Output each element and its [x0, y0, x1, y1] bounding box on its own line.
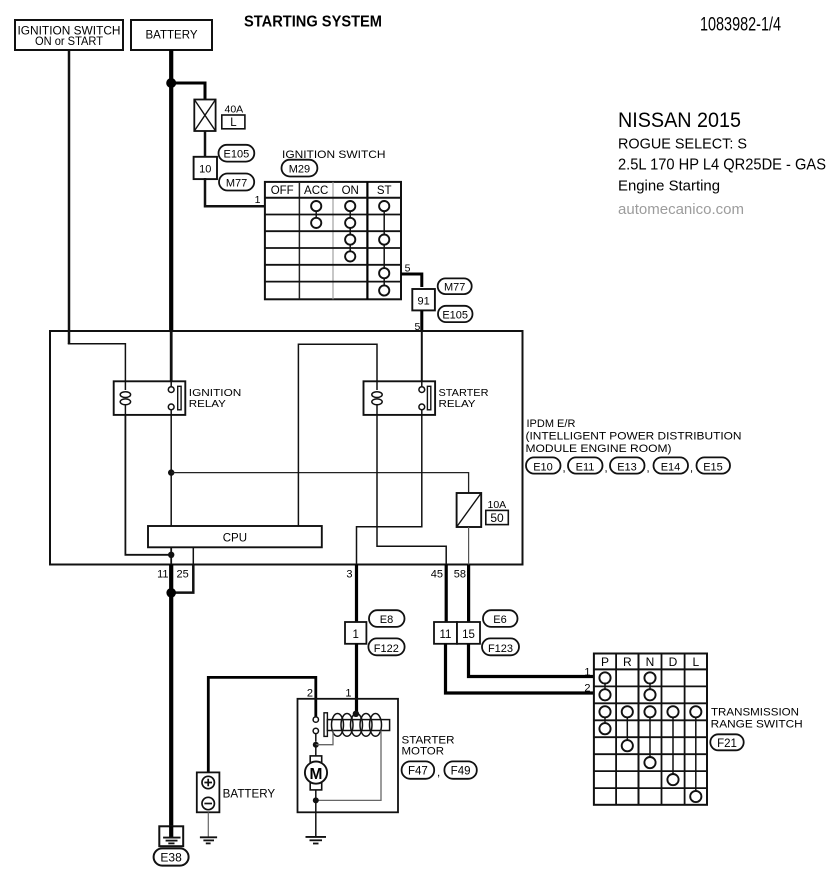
wire CPU to pin 11	[170, 547, 172, 564]
junction dot motor ground node	[313, 797, 319, 803]
label IPDM E/R	[526, 418, 742, 455]
wire contact node to motor	[315, 745, 317, 756]
wire contact node to coil left	[316, 731, 333, 745]
connector oval E105 right	[438, 306, 473, 322]
label IGNITION SWITCH	[282, 149, 386, 161]
svg-text:E11: E11	[576, 461, 595, 473]
connector box 91	[412, 289, 435, 310]
ground starter motor	[306, 837, 327, 844]
svg-text:Engine Starting: Engine Starting	[618, 179, 720, 195]
svg-text:BATTERY: BATTERY	[146, 30, 198, 42]
junction dot starter pin 1	[353, 711, 359, 717]
wire connector 91 to IPDM pin 5	[420, 310, 423, 381]
svg-text:2.5L 170 HP L4 QR25DE - GAS: 2.5L 170 HP L4 QR25DE - GAS	[618, 157, 826, 174]
connector oval F21	[710, 734, 743, 750]
svg-text:TRANSMISSION: TRANSMISSION	[711, 707, 799, 719]
connector oval F123	[482, 638, 519, 655]
svg-text:F122: F122	[374, 643, 399, 655]
svg-text:,: ,	[437, 767, 440, 779]
svg-text:L: L	[230, 117, 237, 129]
starter motor box	[298, 699, 399, 813]
TRS contact lines	[605, 678, 696, 797]
wire fusible link to connector 10	[204, 131, 207, 157]
wire battery plus to starter pin 2	[208, 677, 315, 772]
svg-text:1: 1	[255, 194, 261, 206]
svg-text:F47: F47	[408, 766, 428, 778]
ignition switch table headers	[271, 185, 392, 197]
title STARTING SYSTEM	[244, 14, 382, 31]
svg-text:2: 2	[307, 688, 313, 700]
wire CPU to pin 25	[192, 547, 194, 564]
transmission range switch table grid	[594, 654, 707, 805]
connector oval M77 right	[438, 278, 472, 294]
wire motor to starter ground	[315, 790, 317, 837]
wire connector 15 to TRS row 1	[469, 644, 594, 677]
wire pin 3 to connector 1	[355, 565, 358, 623]
box IGNITION SWITCH ON or START	[15, 20, 123, 50]
svg-text:ON: ON	[342, 185, 359, 197]
junction dot starter contact node	[313, 742, 319, 748]
svg-text:E105: E105	[442, 309, 468, 321]
connector oval M77	[219, 174, 254, 191]
svg-text:E13: E13	[617, 461, 637, 473]
wire battery main feed	[169, 50, 173, 381]
connector box 1	[345, 622, 366, 644]
svg-text:M: M	[310, 766, 323, 783]
fusible link 40A	[194, 100, 245, 132]
starter solenoid coil	[327, 714, 389, 737]
connector oval E6	[483, 610, 518, 627]
svg-text:F123: F123	[488, 643, 513, 655]
svg-text:15: 15	[462, 629, 475, 641]
svg-text:ACC: ACC	[304, 185, 328, 197]
wire branch to fusible link	[171, 83, 205, 100]
svg-text:45: 45	[431, 569, 443, 581]
svg-text:MODULE ENGINE ROOM): MODULE ENGINE ROOM)	[526, 443, 672, 455]
svg-text:40A: 40A	[225, 104, 244, 116]
svg-text:ROGUE SELECT: S: ROGUE SELECT: S	[618, 137, 747, 153]
header text block	[618, 109, 826, 218]
wire starter relay coil to pin 45	[377, 415, 446, 565]
wire ignition switch pin 5 to connector 91	[401, 274, 422, 287]
svg-text:ST: ST	[377, 185, 392, 197]
wire battery minus to ground	[207, 812, 209, 837]
starter solenoid contacts	[313, 717, 318, 742]
starter relay U2	[364, 381, 489, 415]
svg-text:E15: E15	[703, 461, 723, 473]
ignition switch contact circles	[311, 201, 389, 296]
pin label 1 starter	[345, 688, 351, 700]
doc number 1083982-1/4	[700, 15, 781, 36]
svg-text:L: L	[692, 655, 699, 669]
junction dot pin 11-25	[166, 588, 176, 598]
svg-text:F49: F49	[451, 766, 471, 778]
connector oval F49	[444, 761, 476, 778]
svg-text:IGNITION: IGNITION	[189, 387, 242, 399]
svg-text:ON or START: ON or START	[35, 36, 103, 48]
svg-text:E8: E8	[380, 614, 393, 626]
svg-text:(INTELLIGENT POWER DISTRIBUTIO: (INTELLIGENT POWER DISTRIBUTION	[526, 431, 742, 443]
junction dot fuse feed	[168, 469, 174, 475]
connector oval M29	[282, 160, 318, 177]
TRS table headers P R N D L	[601, 655, 699, 669]
svg-text:RELAY: RELAY	[439, 398, 476, 410]
svg-text:IPDM E/R: IPDM E/R	[527, 418, 576, 430]
pin label 1 ignition switch	[255, 194, 261, 206]
ignition switch table grid	[265, 182, 401, 299]
starter plunger bar	[324, 713, 327, 737]
connector oval E38	[154, 848, 189, 865]
motor M	[305, 756, 327, 790]
svg-text:2: 2	[584, 682, 590, 694]
svg-text:91: 91	[417, 295, 429, 307]
svg-text:10: 10	[199, 163, 211, 175]
svg-text:E6: E6	[493, 614, 506, 626]
pin label 5 upper	[405, 263, 411, 275]
svg-text:10A: 10A	[488, 499, 507, 511]
svg-text:11: 11	[157, 569, 168, 581]
svg-text:3: 3	[346, 569, 352, 581]
svg-text:,: ,	[563, 463, 566, 475]
wire connector 10 to ignition switch pin 1	[205, 178, 265, 206]
svg-text:M77: M77	[444, 282, 465, 294]
svg-text:MOTOR: MOTOR	[402, 745, 445, 757]
svg-text:1: 1	[352, 629, 358, 641]
svg-text:5: 5	[405, 263, 411, 275]
connector ovals E10 E11 E13 E14 E15	[526, 457, 730, 474]
svg-text:,: ,	[605, 463, 608, 475]
svg-text:R: R	[623, 655, 632, 669]
svg-text:N: N	[646, 655, 655, 669]
pin label 5 lower	[414, 321, 420, 333]
battery B1	[197, 772, 276, 812]
junction dot battery branch	[166, 78, 176, 88]
svg-text:25: 25	[177, 569, 189, 581]
svg-text:,: ,	[690, 463, 693, 475]
wire ignition relay contact to CPU	[170, 415, 172, 526]
wire node to fuse 10A	[171, 473, 468, 493]
svg-text:OFF: OFF	[271, 185, 294, 197]
connector oval F122	[368, 638, 404, 655]
TRS contact circles	[599, 672, 701, 802]
svg-text:1: 1	[584, 667, 590, 679]
svg-text:1083982-1/4: 1083982-1/4	[700, 15, 781, 36]
wire ignition relay coil to node	[125, 415, 171, 555]
svg-text:STARTING SYSTEM: STARTING SYSTEM	[244, 14, 382, 31]
junction dot coil node	[168, 552, 174, 558]
svg-text:automecanico.com: automecanico.com	[618, 201, 744, 218]
svg-text:BATTERY: BATTERY	[223, 789, 276, 801]
wire starter relay contact to pin 3	[357, 415, 422, 565]
svg-text:50: 50	[490, 511, 504, 525]
svg-text:E38: E38	[160, 851, 182, 865]
wire connector 11 to TRS row 2	[446, 644, 594, 693]
svg-text:RELAY: RELAY	[189, 398, 226, 410]
connector oval E8	[369, 610, 405, 627]
svg-text:D: D	[669, 655, 678, 669]
ground battery	[200, 837, 217, 843]
svg-text:NISSAN 2015: NISSAN 2015	[618, 109, 741, 132]
wire ignition switch feed	[68, 50, 126, 381]
box BATTERY top	[131, 20, 212, 50]
fuse 10A 50	[457, 493, 509, 527]
svg-text:M29: M29	[289, 163, 310, 175]
wire coil right to motor node	[316, 731, 381, 801]
wire connector 1 to starter motor pin 1	[355, 644, 358, 714]
svg-text:E105: E105	[224, 148, 250, 160]
svg-text:RANGE SWITCH: RANGE SWITCH	[711, 718, 803, 730]
pin label 2 starter	[307, 688, 313, 700]
svg-text:P: P	[601, 655, 609, 669]
connector box 10	[194, 157, 217, 179]
IPDM E/R box	[50, 331, 523, 565]
wire CPU to starter relay coil	[298, 344, 377, 526]
svg-text:STARTER: STARTER	[439, 387, 489, 399]
svg-text:E14: E14	[661, 461, 681, 473]
svg-text:CPU: CPU	[223, 533, 247, 545]
pin labels below IPDM	[157, 569, 466, 581]
svg-text:M77: M77	[226, 177, 247, 189]
connector oval F47	[402, 761, 441, 779]
svg-text:58: 58	[454, 569, 466, 581]
connector box 11 15	[434, 622, 480, 644]
wire pin 11 to ground E38	[169, 565, 173, 827]
wire fuse to pin 58	[468, 527, 470, 565]
wire pin 45 to connector 11	[445, 565, 448, 623]
TRS pin labels 1 2	[584, 667, 590, 695]
label TRANSMISSION RANGE SWITCH	[711, 707, 803, 731]
svg-text:,: ,	[647, 463, 650, 475]
wire pin 25 join	[171, 565, 193, 593]
connector oval E105	[219, 145, 255, 162]
svg-text:11: 11	[440, 629, 452, 641]
CPU box	[148, 526, 322, 547]
svg-text:F21: F21	[717, 738, 737, 750]
svg-text:E10: E10	[533, 461, 553, 473]
ground E38 box	[159, 826, 183, 846]
wire pin 58 to connector 15	[467, 565, 470, 623]
ignition switch contact lines	[316, 206, 384, 290]
label STARTER MOTOR	[402, 734, 455, 757]
ignition relay U1	[114, 381, 242, 415]
svg-text:1: 1	[345, 688, 351, 700]
